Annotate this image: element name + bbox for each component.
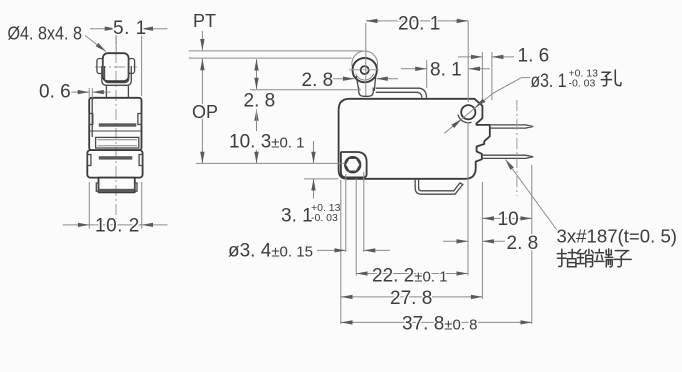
ext lines below left hole [341, 172, 364, 324]
22.2 left arrow [356, 273, 369, 275]
front view top-right mounting hole [461, 105, 475, 119]
2.8 right right arrow [483, 240, 505, 242]
1.6 left arrow [458, 56, 482, 58]
front view roller hub hole [361, 66, 369, 74]
diameter 3.1 hole diagonal [444, 78, 530, 134]
front view roller [353, 58, 377, 82]
svg-text:ø3. 4±0. 15: ø3. 4±0. 15 [228, 241, 313, 262]
side view plunger stem [106, 85, 128, 97]
dimension 37.8 line [341, 321, 532, 323]
22.2 right arrow [455, 273, 468, 275]
20.1 left arrow [366, 20, 380, 22]
svg-text:27. 8: 27. 8 [390, 288, 432, 309]
PT upper reference line [189, 50, 363, 52]
dimension 2.8 right left arrow [443, 240, 468, 242]
side view protrusion foot left [96, 183, 98, 191]
PT arrow down [201, 31, 203, 50]
side view clip notch upper-right [138, 114, 142, 125]
front view body outline [339, 99, 490, 179]
side view body lower [87, 150, 142, 178]
27.8 left arrow [341, 296, 354, 298]
front view bottom terminal bend [415, 179, 463, 194]
svg-text:Ø4. 8x4. 8: Ø4. 8x4. 8 [8, 24, 83, 44]
dimension 0.6 left arrow [66, 91, 89, 93]
svg-text:2. 8: 2. 8 [507, 233, 539, 254]
svg-text:0. 6: 0. 6 [39, 82, 71, 103]
dimension 2.8 roller bracket right arrow [377, 78, 399, 80]
svg-text:PT: PT [193, 11, 216, 31]
lever pressed line [250, 89, 361, 91]
1.6 right arrow [492, 56, 514, 58]
svg-text:10. 3±0. 1: 10. 3±0. 1 [229, 132, 305, 153]
svg-text:2. 8: 2. 8 [244, 91, 276, 112]
dimension 10 line [482, 217, 531, 219]
OP dimension line [201, 59, 203, 163]
dimension 20.1 ext right [467, 21, 469, 102]
side view dark strip 2 [99, 156, 133, 159]
10 left arrow [483, 217, 495, 219]
10.3 down arrow [256, 150, 258, 163]
glyph zi [614, 251, 631, 267]
svg-text:10: 10 [498, 209, 519, 230]
front view lever bracket sides [356, 76, 376, 91]
svg-text:1. 6: 1. 6 [518, 46, 550, 67]
dimension 22.2 line [356, 273, 468, 275]
dimension 10.2 left arrow [63, 224, 90, 226]
svg-text:5. 1: 5. 1 [113, 18, 147, 39]
body bottom ext line [304, 178, 338, 180]
dimension 2.8 plunger column [256, 59, 258, 89]
dimension 5.1 line right arrow [142, 28, 168, 30]
front view bottom-left ear [341, 152, 367, 177]
svg-text:37. 8±0. 8: 37. 8±0. 8 [402, 314, 478, 335]
svg-text:-0. 03: -0. 03 [311, 212, 338, 224]
side view slot inner lines [98, 140, 138, 146]
front view bottom-left mounting hole [345, 157, 361, 173]
3.4 right arrow [364, 249, 390, 251]
dimension 5.1 line left arrow [90, 28, 116, 30]
front view terminal centerline [516, 100, 518, 196]
svg-text:8. 1: 8. 1 [430, 60, 462, 81]
svg-text:OP: OP [192, 102, 218, 122]
side view bracket inner [105, 66, 129, 83]
dimension 10.2 ext lines [89, 182, 141, 229]
side view seam line [90, 130, 142, 132]
2.8 down arrow [256, 79, 258, 90]
front view roller centerline [349, 69, 381, 71]
dimension 5.1 ext lines [116, 33, 141, 96]
dimension 8.1 ext line lever end [426, 60, 428, 88]
ext line hole center right lower [467, 122, 469, 276]
svg-text:-0. 03: -0. 03 [569, 78, 596, 90]
front view lever bar [376, 88, 427, 98]
side view body inner wall line [91, 99, 93, 138]
front view top-right hole boss arc [458, 115, 472, 123]
svg-text:20. 1: 20. 1 [398, 14, 440, 35]
dimension 0.6 right arrow [93, 91, 111, 93]
dimension 27.8 line [341, 296, 482, 298]
side view clip notch upper-left [89, 114, 93, 125]
front view top terminal [490, 125, 533, 128]
side view bracket outer [102, 66, 132, 85]
10.3 line [256, 110, 258, 132]
37.8 right arrow [518, 321, 532, 323]
ext line terminal tip [531, 165, 533, 324]
hole diagonal arrow upper [475, 100, 484, 108]
terminal leader arrow [506, 160, 557, 230]
dimension 10.2 right arrow [142, 224, 168, 226]
side view roller centerline horizontal [95, 66, 137, 68]
dimension 0.6 tick lines [89, 88, 92, 98]
ext line terminal face lower [481, 182, 483, 299]
2.8 up arrow [256, 59, 258, 69]
svg-text:10. 2: 10. 2 [95, 216, 140, 237]
front view roller free position arc [352, 51, 378, 68]
PT lower reference line [189, 57, 352, 59]
hole centerline OP line [196, 162, 345, 164]
hole diagonal arrow lower [452, 119, 462, 127]
hole label kong glyph [601, 70, 621, 86]
20.1 right arrow [454, 20, 468, 22]
27.8 right arrow [469, 296, 482, 298]
3.4 left arrow [317, 249, 346, 251]
front view lever bracket foot [359, 88, 374, 97]
svg-text:3x#187(t=0. 5): 3x#187(t=0. 5) [557, 226, 678, 247]
side view bottom protrusion [99, 178, 135, 193]
8.1 right arrow [469, 68, 490, 70]
svg-text:ø3. 1: ø3. 1 [531, 71, 567, 92]
glyph xiao [577, 249, 594, 267]
side view clip notch lower-right [139, 155, 143, 166]
OP arrow down [201, 151, 203, 163]
side view roller left ear [97, 59, 103, 74]
ext line 1.6 right [491, 52, 493, 100]
dimension 10.2 line middle [89, 224, 141, 226]
side view protrusion foot right [135, 183, 137, 191]
side view slot channel [96, 137, 139, 148]
front view hex nut in hole [345, 158, 360, 171]
svg-text:3. 1: 3. 1 [281, 206, 313, 227]
svg-text:22. 2±0. 1: 22. 2±0. 1 [372, 266, 448, 287]
37.8 left arrow [341, 321, 354, 323]
side view protrusion dark strip [100, 189, 135, 192]
dimension 3.1 up arrow [313, 179, 315, 198]
side view roller [103, 53, 129, 81]
dimension 2.8 roller bracket left arrow [333, 78, 354, 80]
glyph duan [595, 249, 613, 267]
ext line terminal face upper [481, 52, 483, 99]
svg-text:2. 8: 2. 8 [302, 70, 334, 91]
10 right arrow [519, 217, 532, 219]
leader arrow for roller size [85, 36, 106, 52]
side view dark strip 1 [99, 123, 137, 126]
8.1 left arrow [401, 68, 427, 70]
side view roller right ear [129, 59, 135, 74]
dimension 20.1 line [366, 20, 468, 22]
side view body upper [89, 98, 141, 150]
side view clip notch lower-left [87, 155, 91, 166]
10.3 up arrow [256, 110, 258, 121]
terminal name glyphs cha xiao duan zi [557, 249, 631, 267]
glyph cha [557, 249, 576, 266]
dimension 3.1 down arrow [313, 141, 315, 163]
front view roller center vertical line [365, 23, 367, 96]
OP arrow up [201, 59, 203, 71]
front view roller rim arc [356, 74, 374, 80]
front view middle terminal [482, 155, 533, 158]
side view centerline vertical [115, 33, 117, 222]
